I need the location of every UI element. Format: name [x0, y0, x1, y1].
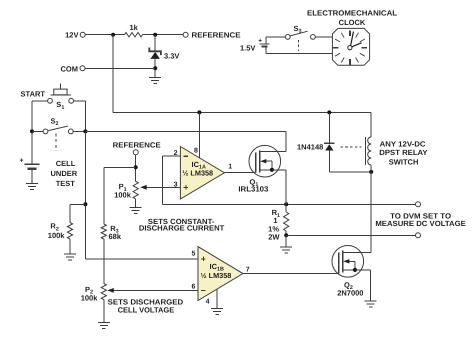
svg-text:5: 5: [191, 251, 195, 258]
svg-text:IRL3103: IRL3103: [238, 185, 268, 194]
svg-text:100k: 100k: [81, 294, 99, 303]
svg-text:UNDER: UNDER: [51, 169, 78, 178]
svg-text:ELECTROMECHANICAL: ELECTROMECHANICAL: [307, 8, 397, 17]
svg-text:1N4148: 1N4148: [297, 143, 323, 152]
svg-text:DISCHARGE CURRENT: DISCHARGE CURRENT: [139, 224, 225, 233]
svg-text:CLOCK: CLOCK: [339, 18, 366, 27]
svg-text:4: 4: [206, 299, 210, 306]
svg-text:100k: 100k: [48, 231, 66, 240]
svg-text:3.3V: 3.3V: [164, 52, 179, 61]
svg-text:12V: 12V: [65, 31, 78, 40]
svg-text:½ LM358: ½ LM358: [182, 169, 213, 178]
svg-text:CELL VOLTAGE: CELL VOLTAGE: [118, 305, 175, 314]
svg-text:DPST RELAY: DPST RELAY: [379, 148, 427, 157]
svg-text:+: +: [20, 158, 24, 165]
svg-text:2N7000: 2N7000: [337, 289, 363, 298]
svg-text:CELL: CELL: [56, 159, 76, 168]
svg-text:SWITCH: SWITCH: [389, 158, 419, 167]
svg-text:REFERENCE: REFERENCE: [113, 140, 161, 149]
svg-text:1: 1: [228, 164, 232, 171]
svg-text:1k: 1k: [130, 23, 139, 32]
svg-text:COM: COM: [61, 64, 79, 73]
svg-text:2: 2: [174, 150, 178, 157]
svg-text:8: 8: [194, 148, 198, 155]
svg-text:3: 3: [174, 181, 178, 188]
svg-text:TEST: TEST: [56, 179, 76, 188]
svg-text:MEASURE DC VOLTAGE: MEASURE DC VOLTAGE: [375, 219, 466, 228]
svg-text:68k: 68k: [109, 232, 122, 241]
svg-text:+: +: [258, 37, 262, 44]
svg-text:START: START: [21, 89, 46, 98]
svg-text:½ LM358: ½ LM358: [201, 271, 232, 280]
svg-text:7: 7: [246, 267, 250, 274]
svg-text:100k: 100k: [114, 191, 132, 200]
svg-text:6: 6: [191, 284, 195, 291]
svg-text:1.5V: 1.5V: [240, 44, 255, 53]
svg-text:2W: 2W: [268, 233, 280, 242]
svg-text:REFERENCE: REFERENCE: [192, 31, 241, 40]
